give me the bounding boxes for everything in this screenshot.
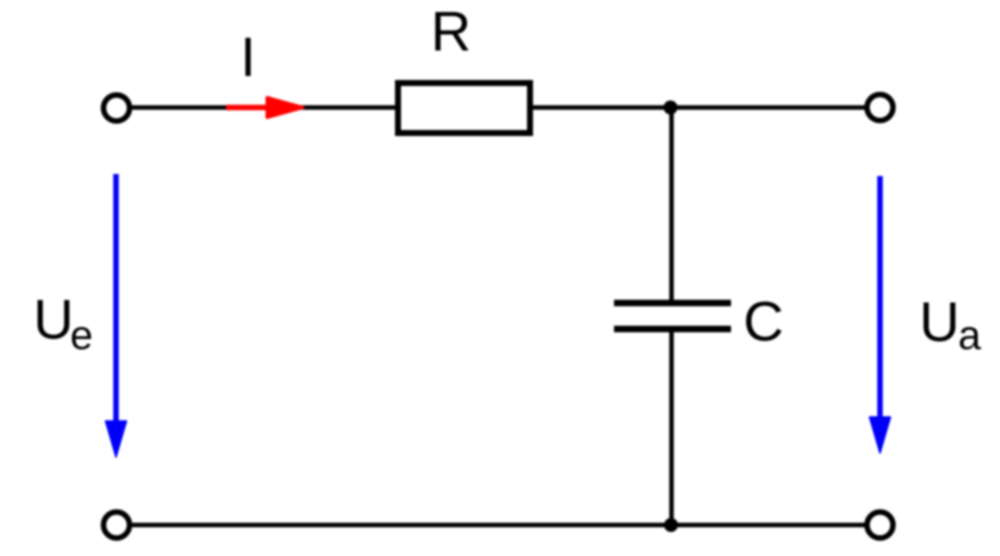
capacitor C1 bottom plate bbox=[614, 326, 731, 333]
current arrow I (red) bbox=[226, 98, 303, 118]
capacitor C1 top plate bbox=[614, 300, 731, 307]
input terminal top-left bbox=[104, 95, 130, 121]
input terminal bottom-left bbox=[104, 512, 130, 538]
wire top from input terminal to resistor bbox=[129, 105, 400, 110]
node A junction dot (top) bbox=[664, 101, 678, 115]
svg-text:R: R bbox=[431, 0, 471, 63]
wire vertical from capacitor bottom plate to bottom rail bbox=[669, 329, 674, 527]
wire top from resistor to output terminal bbox=[528, 105, 867, 110]
svg-text:C: C bbox=[743, 290, 783, 353]
wire vertical from node A to capacitor top plate bbox=[669, 105, 674, 303]
resistor R1 body bbox=[398, 83, 530, 133]
output terminal bottom-right bbox=[867, 512, 893, 538]
svg-text:U: U bbox=[33, 288, 73, 351]
voltage arrow Ue (blue, left) bbox=[106, 174, 127, 457]
wire bottom rail bbox=[129, 523, 867, 528]
svg-text:I: I bbox=[240, 25, 256, 88]
voltage arrow Ua (blue, right) bbox=[870, 176, 891, 453]
svg-text:U: U bbox=[919, 290, 959, 353]
svg-text:a: a bbox=[958, 312, 981, 358]
node B junction dot (bottom) bbox=[664, 518, 678, 532]
output terminal top-right bbox=[867, 95, 893, 121]
svg-text:e: e bbox=[70, 312, 93, 358]
